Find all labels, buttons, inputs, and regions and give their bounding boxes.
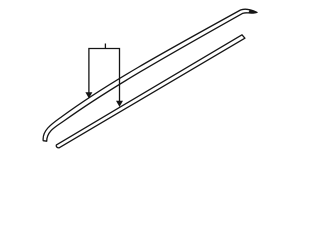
upper strip tip fill xyxy=(248,9,257,13)
lower molding strip xyxy=(56,35,245,148)
upper molding strip (hooked left end, tapered right tip) xyxy=(43,9,257,141)
left arrowhead xyxy=(85,92,92,98)
right arrowhead xyxy=(116,101,123,107)
callout bracket xyxy=(89,44,120,102)
